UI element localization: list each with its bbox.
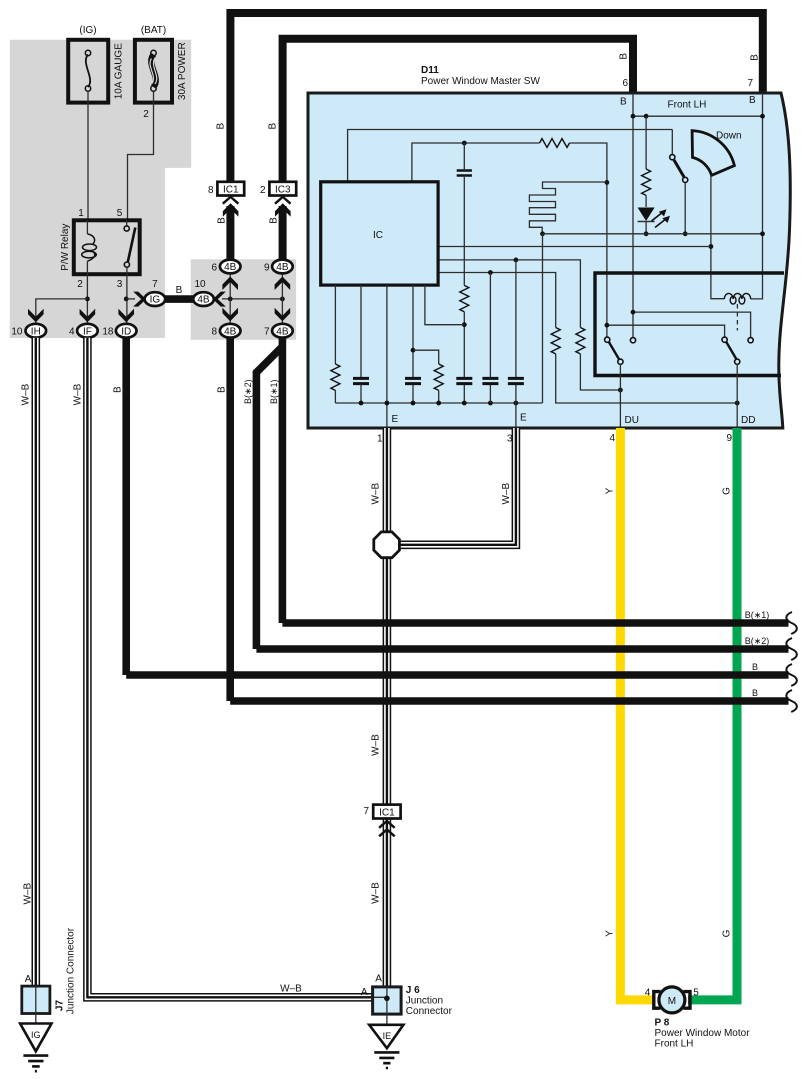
connector J7 box <box>22 986 50 1013</box>
node pin7-233 <box>760 231 765 236</box>
svg-text:E: E <box>520 413 527 424</box>
node comb-bottom <box>540 231 545 236</box>
wire E rail <box>335 402 542 404</box>
wire B(+2) branch diagonal <box>256 347 282 650</box>
resistor comb meander <box>529 182 607 234</box>
wire line272 to resistor 555 <box>438 273 737 404</box>
wire thin 4B cross link <box>222 298 282 300</box>
svg-text:Front LH: Front LH <box>668 100 707 111</box>
wire ic pin b3 E1 <box>386 285 388 428</box>
svg-text:6: 6 <box>211 263 217 274</box>
arrow chevrons mid IC1 <box>379 821 395 828</box>
node pin7-rail <box>760 114 765 119</box>
svg-text:1: 1 <box>78 208 84 219</box>
svg-text:B: B <box>752 662 758 672</box>
capacitor c516 <box>508 378 524 383</box>
continuation squiggle 1 <box>786 612 797 634</box>
svg-text:9: 9 <box>726 433 732 444</box>
wire BAT fuse to relay pin5 <box>128 91 154 220</box>
node pin6-rail <box>631 114 636 119</box>
svg-text:Power Window Master SW: Power Window Master SW <box>421 76 540 87</box>
svg-text:W–B: W–B <box>371 882 382 904</box>
wire led branch <box>645 116 647 234</box>
svg-text:Connector: Connector <box>406 1006 453 1017</box>
svg-text:30A POWER: 30A POWER <box>177 42 188 100</box>
continuation squiggle 4 <box>786 690 797 712</box>
capacitor c490 <box>482 378 498 383</box>
wire comb vertical to rail <box>542 234 544 403</box>
node cap516-259 <box>514 258 519 263</box>
wire W-B from E2 pin to octagon <box>400 428 516 545</box>
wire pin6 vertical inside D11 <box>632 93 634 312</box>
fuse 30A POWER box <box>135 40 172 103</box>
svg-text:G: G <box>722 487 733 495</box>
wire pin7 vertical inside D11 down to coil <box>751 93 763 299</box>
wire rail y233 <box>543 233 763 235</box>
svg-text:8: 8 <box>208 185 214 196</box>
arrow down into 8-4B <box>222 308 238 322</box>
svg-text:Junction: Junction <box>406 995 443 1006</box>
wire B(+1) from 7-4B down <box>279 337 287 623</box>
wire B(+2) horizontal <box>256 645 788 653</box>
svg-text:J7: J7 <box>55 1000 66 1012</box>
switch SW-up contact branch <box>672 130 685 234</box>
connector IC1 top box <box>217 182 244 196</box>
svg-text:A: A <box>25 974 32 985</box>
connector IC3 top box <box>269 182 296 196</box>
node J6 <box>384 996 390 1002</box>
svg-text:B(∗2): B(∗2) <box>243 379 253 404</box>
wire DD vertical <box>736 364 738 428</box>
arrow chevrons IC3 <box>275 197 291 204</box>
svg-text:5: 5 <box>117 208 123 219</box>
contact circle right-right <box>748 338 753 343</box>
arrow down into ID <box>118 309 134 323</box>
motor P8 circle <box>659 987 685 1013</box>
svg-text:10: 10 <box>11 327 23 338</box>
svg-text:B: B <box>176 285 183 296</box>
svg-text:7: 7 <box>363 806 369 817</box>
svg-text:B(∗1): B(∗1) <box>269 379 279 404</box>
wire cap490 chain <box>489 273 491 404</box>
svg-text:7: 7 <box>152 279 158 290</box>
wire B thick from ID down to line3 <box>122 337 130 675</box>
svg-text:B: B <box>216 217 227 224</box>
node sw-bottom <box>683 231 688 236</box>
svg-text:IF: IF <box>83 326 92 337</box>
node r464-324 <box>462 322 467 327</box>
svg-text:B: B <box>620 97 627 108</box>
svg-text:W–B: W–B <box>73 383 84 405</box>
svg-text:3: 3 <box>117 279 123 290</box>
svg-text:IC1: IC1 <box>379 808 395 819</box>
connector 10 4B oval <box>193 292 214 306</box>
svg-text:W–B: W–B <box>371 734 382 756</box>
wire p4 branch resistor 438 <box>413 350 439 403</box>
wire DU vertical <box>619 364 621 428</box>
node 606-325 <box>605 323 610 328</box>
node link-230 <box>228 297 233 302</box>
svg-text:A: A <box>361 987 368 998</box>
svg-text:IC3: IC3 <box>275 185 291 196</box>
node pin2 split <box>85 297 90 302</box>
svg-text:B(∗2): B(∗2) <box>745 636 770 646</box>
svg-text:6: 6 <box>622 78 628 89</box>
svg-text:ID: ID <box>121 326 131 337</box>
wire G green DD to motor <box>688 428 737 1000</box>
svg-text:W–B: W–B <box>280 984 302 995</box>
svg-text:Y: Y <box>605 930 616 937</box>
svg-text:E: E <box>392 414 399 425</box>
node rail-490 <box>488 401 493 406</box>
svg-text:W–B: W–B <box>22 883 33 905</box>
arrow down into IH <box>28 309 44 323</box>
connector ID oval <box>116 324 137 338</box>
wire W-B from E1 pin to octagon to IC1 to J6 <box>383 428 392 532</box>
capacitor c361 <box>353 378 369 383</box>
node p4-350 <box>411 348 416 353</box>
connector 9 4B oval <box>272 260 293 274</box>
wire B horizontal from 8-4B <box>230 697 788 705</box>
svg-text:W–B: W–B <box>501 483 512 505</box>
svg-text:W–B: W–B <box>21 383 32 405</box>
LED D1 <box>638 208 670 228</box>
svg-text:4: 4 <box>645 988 651 999</box>
wire to IG arrow <box>126 298 135 300</box>
arrow into 10-4B <box>213 292 226 307</box>
svg-text:2: 2 <box>77 279 83 290</box>
fuse 30A POWER element <box>151 55 156 88</box>
svg-text:IG: IG <box>150 295 161 306</box>
svg-text:(IG): (IG) <box>79 25 96 36</box>
connector 8 4B oval <box>220 324 241 338</box>
svg-text:18: 18 <box>102 327 114 338</box>
switch right pivot <box>722 337 727 342</box>
wire line246 <box>438 246 711 248</box>
svg-text:B: B <box>749 95 756 106</box>
node rail-464 <box>462 401 467 406</box>
svg-text:7: 7 <box>264 327 270 338</box>
wire 6-4B to 8-4B vertical <box>229 274 231 324</box>
relay switch contacts <box>126 220 128 226</box>
linkage dashed <box>736 304 738 331</box>
ground IE wire <box>386 1014 388 1025</box>
node du-390 <box>618 388 623 393</box>
wire W-B IF to J6 <box>87 338 372 998</box>
svg-text:4: 4 <box>609 433 615 444</box>
connector IH oval <box>26 324 47 338</box>
svg-text:Y: Y <box>605 487 616 494</box>
wire W-B IH long <box>31 338 40 986</box>
svg-text:IG: IG <box>31 1030 41 1040</box>
node comb-top <box>605 180 610 185</box>
arrow down into IF <box>80 309 96 323</box>
svg-text:IH: IH <box>31 326 41 337</box>
svg-text:G: G <box>722 929 733 937</box>
svg-text:1: 1 <box>377 434 383 445</box>
wire down-sector to coil <box>711 175 724 298</box>
continuation squiggle 2 <box>786 638 797 660</box>
svg-text:Junction Connector: Junction Connector <box>66 927 77 1014</box>
capacitor c413 <box>405 378 421 383</box>
gray 4B connector block background <box>191 259 296 340</box>
wire lineA y129 <box>348 130 673 182</box>
svg-text:J 6: J 6 <box>406 985 420 996</box>
wire B thick IG to 4B <box>165 295 195 303</box>
node pin3 split <box>124 297 129 302</box>
svg-text:DD: DD <box>741 415 755 426</box>
resistor lineB <box>540 139 570 148</box>
wire B(+1) horizontal <box>282 619 788 627</box>
wire B IC3 to 9-4B <box>279 206 287 260</box>
wire cap516 chain E2 <box>515 260 517 428</box>
wire to IH <box>36 299 88 323</box>
node link-282 <box>280 297 285 302</box>
wire 606 to pivots <box>607 325 725 337</box>
node rail-438 <box>436 401 441 406</box>
svg-text:B: B <box>268 123 279 130</box>
node rail-386 <box>385 401 390 406</box>
wire IG fuse to relay pin1 <box>87 91 89 220</box>
contact circle left-right <box>630 338 635 343</box>
node led-bottom <box>644 231 649 236</box>
connector J6 box <box>373 987 402 1014</box>
continuation squiggle 3 <box>786 664 797 686</box>
switch left pivot <box>605 337 610 342</box>
svg-text:(BAT): (BAT) <box>141 25 166 36</box>
svg-text:DU: DU <box>625 415 639 426</box>
inductor relay coil <box>724 293 750 304</box>
resistor r335 <box>331 364 340 390</box>
wire Y yellow DU to motor <box>620 428 655 1000</box>
resistor r464 <box>460 285 469 311</box>
connector 6 4B oval <box>220 260 241 274</box>
arrow chevrons IC1 <box>223 197 239 204</box>
svg-text:B: B <box>750 54 761 61</box>
relay coil L1 <box>86 220 88 234</box>
splice octagon <box>374 532 400 558</box>
svg-text:10: 10 <box>194 279 206 290</box>
svg-text:A: A <box>375 974 382 985</box>
svg-text:IC1: IC1 <box>223 185 239 196</box>
node rail-413 <box>411 401 416 406</box>
Down sector symbol <box>692 131 734 176</box>
node down-246 <box>709 244 714 249</box>
component D11 Power Window Master SW box <box>308 93 790 428</box>
switch left lower contact <box>618 359 623 364</box>
svg-text:B: B <box>752 688 758 698</box>
capacitor C1 <box>457 171 472 176</box>
fuse 10A GAUGE element <box>86 55 90 88</box>
node rail-361 <box>359 401 364 406</box>
wire B inner loop top <box>283 39 633 182</box>
connector 7 4B oval <box>272 324 293 338</box>
wire 9-4B to 7-4B vertical <box>281 274 283 324</box>
svg-text:10A GAUGE: 10A GAUGE <box>113 43 124 99</box>
svg-text:4B: 4B <box>276 326 289 337</box>
node cap464 top <box>462 141 467 146</box>
svg-text:Power Window Motor: Power Window Motor <box>655 1028 751 1039</box>
node led-top <box>644 114 649 119</box>
svg-text:B: B <box>112 386 123 393</box>
relay P/W box <box>74 220 140 274</box>
svg-text:P 8: P 8 <box>655 1017 670 1028</box>
arrow up into 6-4B <box>222 277 238 291</box>
switch right lower contact <box>735 359 740 364</box>
relay box inside D11 <box>595 273 784 376</box>
svg-text:B(∗1): B(∗1) <box>745 610 770 620</box>
node rail-516 <box>514 401 519 406</box>
resistor led <box>642 169 651 195</box>
ground IE triangle <box>369 1025 403 1048</box>
wire relay pin3 down <box>126 274 128 323</box>
svg-text:9: 9 <box>264 263 270 274</box>
svg-text:2: 2 <box>143 109 149 120</box>
svg-text:8: 8 <box>211 327 217 338</box>
svg-text:B: B <box>618 53 629 60</box>
svg-text:Front LH: Front LH <box>655 1039 694 1050</box>
svg-text:W–B: W–B <box>371 483 382 505</box>
wire lineB y143 <box>412 143 607 325</box>
wire ic pin b1 <box>334 285 336 403</box>
wire pin6 to switch contacts <box>633 312 751 338</box>
gray relay block background <box>10 40 191 338</box>
svg-text:4B: 4B <box>197 295 210 306</box>
wire B IC1 to 6-4B <box>226 206 234 260</box>
arrow into IG <box>133 292 146 307</box>
wire ic pin b4 <box>412 285 414 403</box>
wire ic pin b2 cap <box>360 285 362 403</box>
svg-text:Down: Down <box>716 131 742 142</box>
connector IC1 mid box <box>373 805 400 819</box>
node dd-403 <box>735 401 740 406</box>
connector IG oval <box>145 292 166 306</box>
motor M brackets <box>654 992 690 1009</box>
node pin6-312 <box>631 310 636 315</box>
resistor r438 <box>434 364 443 390</box>
svg-text:5: 5 <box>693 988 699 999</box>
svg-text:4B: 4B <box>224 326 237 337</box>
switch right blade <box>726 342 736 360</box>
ground IG bars <box>23 1056 48 1072</box>
svg-text:4B: 4B <box>224 262 237 273</box>
connector IF oval <box>77 324 98 338</box>
svg-text:P/W Relay: P/W Relay <box>60 224 71 271</box>
wire B outer loop top <box>230 13 762 182</box>
svg-text:3: 3 <box>507 434 513 445</box>
svg-text:4B: 4B <box>276 262 289 273</box>
svg-text:7: 7 <box>747 78 753 89</box>
svg-text:M: M <box>668 996 676 1007</box>
wire cap464 vertical chain <box>463 143 465 403</box>
wire ic pin b5 <box>425 285 464 325</box>
wire B from 8-4B down to line4 <box>226 337 234 701</box>
wire line259 to resistor 580 <box>438 260 620 390</box>
ground IG wire <box>35 1014 37 1024</box>
svg-text:IE: IE <box>383 1031 392 1041</box>
switch left blade <box>609 342 619 360</box>
wire top rail y116 <box>633 115 763 117</box>
IC block U1 <box>321 182 438 285</box>
arrow up into 9-4B <box>275 277 291 291</box>
svg-text:IC: IC <box>373 230 383 241</box>
svg-text:B: B <box>269 217 280 224</box>
svg-text:2: 2 <box>260 185 266 196</box>
switch SW blade <box>670 155 675 160</box>
resistor r580 <box>576 328 585 354</box>
svg-text:D11: D11 <box>421 65 439 76</box>
ground IG triangle <box>20 1024 51 1052</box>
svg-text:4: 4 <box>69 327 75 338</box>
resistor r555 <box>551 328 560 354</box>
arrow down into 7-4B <box>275 308 291 322</box>
wire relay pin2 down <box>86 274 88 323</box>
svg-text:B: B <box>215 123 226 130</box>
ground IE bars <box>374 1052 399 1068</box>
svg-text:B: B <box>216 386 227 393</box>
node cap490-272 <box>488 270 493 275</box>
capacitor c464 <box>456 378 472 383</box>
wire B horizontal from ID <box>126 671 788 679</box>
fuse 10A GAUGE box <box>68 40 108 103</box>
